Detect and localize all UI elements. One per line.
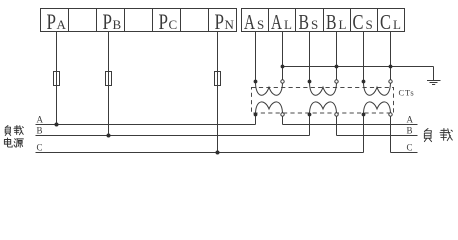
svg-text:P: P [215,9,225,34]
svg-text:B: B [407,126,413,136]
svg-text:B: B [37,126,43,136]
svg-text:N: N [225,17,235,32]
svg-text:A: A [244,10,256,34]
svg-text:C: C [380,10,391,34]
svg-text:L: L [339,17,347,32]
svg-text:P: P [159,9,169,34]
svg-text:CTs: CTs [399,88,415,98]
svg-text:B: B [326,10,337,34]
svg-text:A: A [57,17,67,32]
svg-text:B: B [299,10,310,34]
svg-text:A: A [37,115,44,125]
svg-text:B: B [113,17,122,32]
svg-text:C: C [37,143,43,153]
svg-text:P: P [47,9,57,34]
svg-text:C: C [407,143,413,153]
svg-text:L: L [284,17,292,32]
svg-text:A: A [271,10,283,34]
svg-text:L: L [393,17,401,32]
svg-text:S: S [366,17,373,32]
svg-text:S: S [311,17,318,32]
svg-text:C: C [353,10,364,34]
svg-text:P: P [103,9,113,34]
svg-text:S: S [257,17,264,32]
svg-text:A: A [407,115,414,125]
svg-text:C: C [169,17,178,32]
